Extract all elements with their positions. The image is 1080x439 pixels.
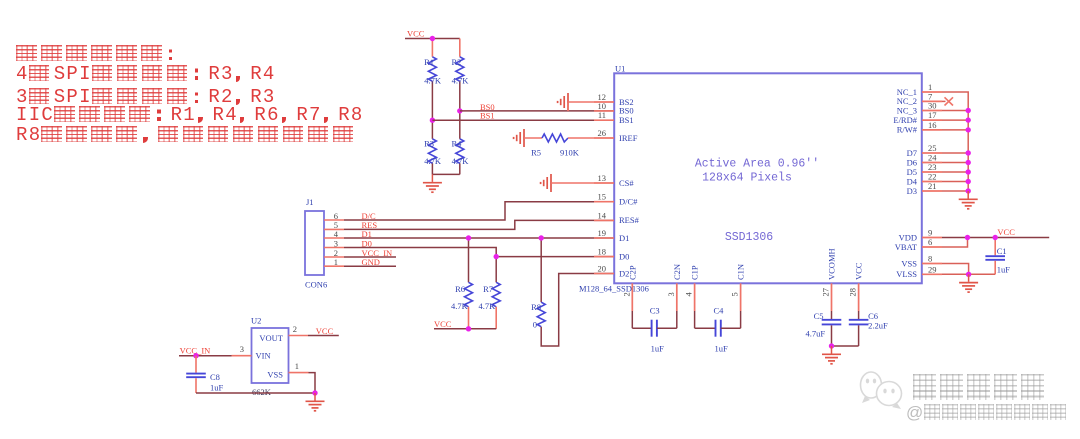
- U1 pin 5 C1N: [740, 283, 742, 311]
- capacitor C4 1uF: [694, 311, 696, 328]
- resistor R1: [431, 39, 433, 57]
- svg-text:17: 17: [928, 110, 937, 120]
- resistor R6: [468, 238, 470, 282]
- svg-text:3: 3: [334, 238, 338, 248]
- J1 pin 2 (VCC_IN): [324, 256, 344, 258]
- resistor R5 910K: [542, 134, 568, 142]
- U1 pin 11 BS1: [594, 119, 614, 121]
- svg-text:M128_64_SSD1306: M128_64_SSD1306: [579, 284, 649, 294]
- svg-text:1uF: 1uF: [997, 264, 1011, 274]
- node VCC_IN/C8: [193, 353, 198, 358]
- wire pin 13: [551, 182, 614, 184]
- svg-text:VCC: VCC: [407, 29, 425, 39]
- svg-text:D1: D1: [619, 233, 629, 243]
- svg-text:VOUT: VOUT: [259, 333, 283, 343]
- U1 pin 18 D0: [594, 256, 614, 258]
- U1 pin 28 VCC: [858, 283, 860, 311]
- U1 pin 14 RES#: [594, 219, 614, 221]
- svg-text:29: 29: [928, 264, 937, 274]
- bus junction: [966, 150, 971, 155]
- svg-text:19: 19: [598, 228, 607, 238]
- U1 pin 7 NC_2: [922, 100, 942, 102]
- bus junction: [966, 169, 971, 174]
- ground (U2): [314, 393, 316, 401]
- U1 pin 27 VCOMH: [831, 283, 833, 311]
- svg-text:0: 0: [533, 320, 537, 330]
- svg-text:20: 20: [598, 264, 607, 274]
- bus junction: [966, 188, 971, 193]
- bus junction: [966, 127, 971, 132]
- node D1/R8: [539, 235, 544, 240]
- wire: [524, 137, 542, 139]
- svg-text:VCC: VCC: [997, 227, 1015, 237]
- node VCC/R6: [466, 326, 471, 331]
- bus junction: [966, 108, 971, 113]
- U2 pin 1 VSS: [289, 372, 309, 374]
- svg-text:J1: J1: [306, 197, 314, 207]
- wire VLSS to C1: [942, 273, 995, 275]
- svg-text:4.7K: 4.7K: [479, 301, 497, 311]
- U1 pin 20 D2: [594, 273, 614, 275]
- svg-text:D4: D4: [907, 176, 918, 186]
- svg-text:VSS: VSS: [267, 370, 283, 380]
- no-connect X on NC_2 pin 7: [942, 100, 946, 102]
- svg-text:R7: R7: [483, 284, 493, 294]
- svg-text:R3: R3: [424, 139, 434, 149]
- U1 pin 15 D/C#: [594, 201, 614, 203]
- node VCC junction: [430, 36, 435, 41]
- svg-text:D6: D6: [907, 157, 917, 167]
- wire VSS to VLSS: [942, 264, 969, 275]
- wire VOUT to VCC: [308, 335, 339, 337]
- resistor R4: [459, 111, 461, 139]
- svg-text:R/W#: R/W#: [897, 125, 918, 135]
- U1 pin 12 BS2: [594, 101, 614, 103]
- wire VSS down: [309, 373, 316, 393]
- svg-text:U1: U1: [615, 64, 625, 74]
- U1 pin 19 D1: [594, 237, 614, 239]
- U1 pin 2 C2P: [631, 283, 633, 311]
- svg-text:5: 5: [730, 292, 740, 296]
- ground (VSS/VLSS): [968, 274, 970, 282]
- U1 pin 17 E/RD#: [922, 119, 942, 121]
- svg-text:4.7K: 4.7K: [424, 156, 442, 166]
- J1 pin 6 (D/C): [324, 219, 344, 221]
- svg-text:4.7uF: 4.7uF: [805, 329, 825, 339]
- wire C8 to VSS gnd rail: [196, 392, 315, 394]
- svg-text:C1P: C1P: [690, 265, 700, 280]
- wire RES to pin 14: [344, 220, 614, 229]
- svg-text:6: 6: [928, 237, 932, 247]
- svg-text:VCC: VCC: [434, 319, 452, 329]
- wire D1 to pin 19: [344, 237, 614, 239]
- svg-text:C2P: C2P: [627, 265, 637, 280]
- svg-text:D3: D3: [907, 186, 917, 196]
- svg-text:E/RD#: E/RD#: [893, 115, 917, 125]
- node D0/R7: [494, 254, 499, 259]
- svg-text:4.7K: 4.7K: [452, 156, 470, 166]
- U1 pin 6 VBAT: [922, 246, 942, 248]
- ground (CS#): [541, 174, 551, 192]
- ground (C5/C6): [831, 346, 833, 354]
- U1 pin 8 VSS: [922, 263, 942, 265]
- svg-text:4: 4: [684, 292, 694, 297]
- svg-text:2: 2: [621, 292, 631, 296]
- svg-text:VSS: VSS: [901, 258, 917, 268]
- svg-text:RES#: RES#: [619, 215, 640, 225]
- wire GND stub: [344, 265, 396, 267]
- capacitor C1 1uF: [994, 238, 996, 256]
- node VSS junction: [966, 272, 971, 277]
- U1 pin 22 D4: [922, 181, 942, 183]
- svg-text:CON6: CON6: [305, 280, 327, 290]
- svg-text:VCC: VCC: [854, 262, 864, 280]
- svg-text:21: 21: [928, 181, 937, 191]
- svg-text:4.7K: 4.7K: [452, 76, 470, 86]
- svg-text:U2: U2: [251, 316, 261, 326]
- U1 pin 24 D6: [922, 162, 942, 164]
- svg-text:C8: C8: [210, 372, 220, 382]
- svg-text:R5: R5: [531, 148, 541, 158]
- svg-text:CS#: CS#: [619, 178, 634, 188]
- J1 pin 3 (D0): [324, 247, 344, 249]
- U1 pin 25 D7: [922, 152, 942, 154]
- svg-text:D0: D0: [619, 251, 629, 261]
- ground (IREF): [514, 129, 524, 147]
- svg-text:SSD1306: SSD1306: [725, 231, 773, 244]
- svg-text:D5: D5: [907, 167, 917, 177]
- U1 pin 4 C1P: [694, 283, 696, 311]
- wire D/C to pin 15: [344, 202, 614, 220]
- svg-text:662K: 662K: [252, 387, 272, 397]
- wire to IREF pin 26: [568, 137, 614, 139]
- wire NC_1 to bus: [942, 92, 968, 111]
- svg-text:D/C#: D/C#: [619, 197, 638, 207]
- svg-text:C2N: C2N: [672, 264, 682, 280]
- wire C6 to C5: [832, 345, 859, 347]
- bus junction: [966, 179, 971, 184]
- svg-text:8: 8: [928, 254, 932, 264]
- svg-text:C1: C1: [997, 246, 1007, 256]
- node BS0 junction: [457, 108, 462, 113]
- wire D0 to pin 18: [344, 248, 614, 257]
- svg-text:VCC: VCC: [316, 326, 334, 336]
- svg-text:15: 15: [598, 192, 607, 202]
- node VCOMH gnd junction: [829, 343, 834, 348]
- U1 pin 21 D3: [922, 190, 942, 192]
- ground (BS2 pin 12): [558, 93, 568, 111]
- node D1/R6: [466, 235, 471, 240]
- svg-text:C6: C6: [868, 311, 878, 321]
- wire bottom rail: [432, 173, 459, 175]
- node C1 top: [993, 235, 998, 240]
- U1 pin 23 D5: [922, 171, 942, 173]
- U1 pin 10 BS0: [594, 110, 614, 112]
- red annotation text block: [16, 45, 178, 62]
- U2 pin 3 VIN: [232, 355, 252, 357]
- svg-text:1uF: 1uF: [210, 382, 224, 392]
- svg-text:13: 13: [598, 173, 607, 183]
- bus vertical: [967, 111, 969, 192]
- svg-text:C4: C4: [714, 306, 725, 316]
- watermark: [855, 368, 910, 410]
- svg-text:VIN: VIN: [256, 351, 271, 361]
- svg-text:R4: R4: [451, 139, 462, 149]
- U1 pin 16 R/W#: [922, 129, 942, 131]
- svg-text:25: 25: [928, 143, 937, 153]
- J1 pin 1 (GND): [324, 265, 344, 267]
- svg-text:D7: D7: [907, 148, 917, 158]
- U1 pin 13 CS#: [594, 182, 614, 184]
- wire VCC_IN stub: [344, 256, 396, 258]
- svg-text:11: 11: [598, 110, 606, 120]
- svg-text:Active Area 0.96'': Active Area 0.96'': [695, 158, 819, 171]
- capacitor C5 4.7uF: [831, 311, 833, 319]
- resistor R8 0 ohm: [540, 238, 542, 302]
- svg-text:NC_3: NC_3: [897, 105, 917, 115]
- svg-text:R2: R2: [451, 57, 461, 67]
- U1 pin 9 VDD: [922, 237, 942, 239]
- svg-text:3: 3: [240, 344, 244, 354]
- wire pin 12: [568, 101, 614, 103]
- svg-text:C5: C5: [814, 311, 824, 321]
- node VDD junction: [965, 235, 970, 240]
- J1 pin 4 (D1): [324, 237, 344, 239]
- svg-text:9: 9: [928, 228, 932, 238]
- svg-text:1: 1: [334, 257, 338, 267]
- svg-text:IREF: IREF: [619, 133, 638, 143]
- ground (R3/R4): [431, 174, 433, 182]
- capacitor C8 1uF: [195, 356, 197, 373]
- svg-text:VCOMH: VCOMH: [827, 248, 837, 280]
- svg-text:22: 22: [928, 172, 937, 182]
- svg-text:C3: C3: [650, 306, 660, 316]
- bus junction: [966, 117, 971, 122]
- U1 pin 1 NC_1: [922, 91, 942, 93]
- svg-text:1uF: 1uF: [651, 343, 665, 353]
- U1 pin 29 VLSS: [922, 273, 942, 275]
- svg-text:VDD: VDD: [899, 232, 917, 242]
- svg-text:3: 3: [666, 292, 676, 296]
- wires NC_3/E/RD#/R/W#/D7-D3 to bus: [942, 110, 968, 112]
- bus junction: [966, 160, 971, 165]
- svg-text:2: 2: [293, 324, 297, 334]
- capacitor C6 2.2uF: [858, 311, 860, 319]
- U2 pin 2 VOUT: [289, 335, 309, 337]
- svg-text:18: 18: [598, 247, 607, 257]
- svg-text:24: 24: [928, 153, 937, 163]
- svg-text:28: 28: [848, 288, 858, 297]
- resistor R7: [495, 257, 497, 283]
- wire VBAT to VDD: [942, 238, 968, 248]
- resistor R3: [428, 139, 436, 164]
- node BS1 junction: [430, 118, 435, 123]
- svg-text:R6: R6: [455, 284, 465, 294]
- svg-text:VLSS: VLSS: [896, 269, 917, 279]
- svg-text:4.7K: 4.7K: [451, 301, 469, 311]
- node gnd junction: [312, 390, 317, 395]
- svg-text:C1N: C1N: [736, 264, 746, 280]
- svg-text:4.7K: 4.7K: [424, 76, 442, 86]
- svg-text:1uF: 1uF: [715, 343, 729, 353]
- U1 pin 26 IREF: [594, 137, 614, 139]
- svg-text:27: 27: [821, 288, 831, 297]
- wire R8 to D2 pin 20: [541, 274, 614, 347]
- svg-text:R1: R1: [424, 57, 434, 67]
- svg-text:23: 23: [928, 162, 937, 172]
- capacitor C3 1uF: [631, 311, 633, 328]
- svg-text:16: 16: [928, 120, 937, 130]
- resistor R2: [459, 39, 461, 57]
- svg-text:VBAT: VBAT: [895, 242, 918, 252]
- svg-text:BS1: BS1: [480, 111, 495, 121]
- svg-text:30: 30: [928, 101, 937, 111]
- wire: [431, 120, 433, 139]
- J1 pin 5 (RES): [324, 228, 344, 230]
- U1 pin 3 C2N: [676, 283, 678, 311]
- svg-text:R8: R8: [531, 302, 541, 312]
- svg-text:1: 1: [295, 361, 299, 371]
- svg-text:910K: 910K: [560, 148, 580, 158]
- svg-text:2.2uF: 2.2uF: [868, 321, 888, 331]
- U1 pin 30 NC_3: [922, 110, 942, 112]
- svg-text:BS1: BS1: [619, 115, 634, 125]
- svg-text:26: 26: [598, 128, 607, 138]
- svg-text:14: 14: [598, 210, 607, 220]
- wire VCC_IN to VIN: [179, 355, 232, 357]
- ground (NC/data bus): [967, 191, 969, 199]
- svg-text:128x64 Pixels: 128x64 Pixels: [702, 171, 792, 184]
